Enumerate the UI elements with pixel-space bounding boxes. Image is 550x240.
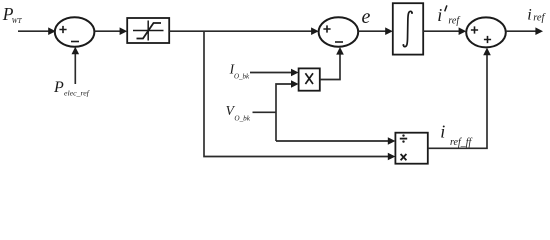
node i_ref label: [527, 7, 546, 24]
saturation block: [127, 18, 169, 43]
wire branch from main line down and along bottom to divider x-input: [204, 31, 395, 160]
svg-text:O_bk: O_bk: [234, 73, 250, 81]
svg-text:O_bk: O_bk: [234, 115, 250, 123]
wire V_O_bk to junction, up into multiplier bottom input, and down to divider top input: [253, 80, 396, 145]
svg-text:i: i: [527, 7, 531, 24]
divider block: [395, 133, 427, 164]
node P_WT label: [2, 4, 23, 25]
multiplier block X: [299, 68, 320, 90]
svg-text:elec_ref: elec_ref: [64, 88, 91, 97]
wire multiplier output up into summer 2 minus input: [320, 47, 344, 80]
svg-text:i: i: [440, 121, 445, 141]
wire output arrow i_ref: [506, 27, 543, 35]
wire I_O_bk into multiplier top input: [250, 69, 299, 77]
wire integrator to summer 3: [423, 27, 466, 35]
summing junction 1: [55, 17, 95, 47]
node i'_ref label: [437, 5, 460, 26]
summing junction 3: [466, 17, 506, 47]
node I_O_bk label: [229, 61, 250, 80]
svg-text:i: i: [437, 5, 442, 25]
integrator block U1: [393, 3, 423, 54]
wire P_WT input arrow into summer 1: [18, 27, 56, 35]
wire saturation to summer 2 (with branch T at x=204): [169, 27, 319, 35]
wire summer 1 to saturation block: [94, 27, 127, 35]
svg-text:ref_ff: ref_ff: [450, 137, 473, 148]
svg-text:ref: ref: [448, 15, 460, 26]
wire divider output right and up into summer 3 plus input: [428, 48, 491, 149]
node P_elec_ref label: [53, 79, 91, 98]
wire P_elec_ref up-arrow into summer 1: [72, 47, 80, 84]
svg-text:P: P: [53, 79, 64, 96]
summing junction 2: [319, 17, 359, 47]
node V_O_bk label: [226, 103, 251, 123]
svg-text:e: e: [362, 6, 371, 28]
svg-text:WT: WT: [12, 17, 23, 25]
node i_ref_ff label: [440, 121, 472, 148]
wire summer 2 to integrator: [358, 27, 393, 35]
